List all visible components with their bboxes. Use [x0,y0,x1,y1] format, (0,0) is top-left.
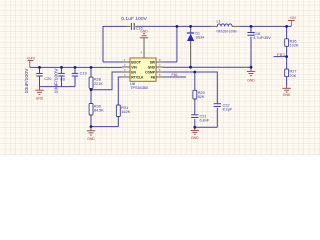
resistor R26 [285,39,299,48]
svg-text:GND: GND [148,65,156,69]
svg-text:VIN: VIN [131,65,137,69]
wire EN pin [91,72,122,90]
power +24V [26,57,35,68]
ground pad9 flipped above IC [140,29,149,38]
resistor R27 [285,69,297,78]
svg-text:C20: C20 [44,77,51,81]
wire VIN rail y=67.4 [30,66,122,68]
wire comp network bottom y=127.3 [195,108,218,128]
svg-text:GND: GND [87,137,95,141]
U8 body [130,58,156,81]
capacitor C22 [214,103,233,111]
svg-text:8.2pF: 8.2pF [223,107,233,111]
svg-text:102K: 102K [290,44,299,48]
resistor R31 [116,105,130,117]
inductor L1 [211,19,240,33]
capacitor C8 [54,68,65,93]
svg-text:0.1uF 100V: 0.1uF 100V [121,16,147,21]
capacitor C18 [247,32,271,40]
capacitor C20 [24,68,51,93]
wire C18 column x=251 [250,26,252,67]
U8 pins 1-9 [122,38,163,77]
svg-text:221K: 221K [94,82,103,86]
svg-text:C19: C19 [80,72,87,76]
svg-text:SW: SW [150,60,156,64]
svg-text:20K: 20K [290,74,297,78]
svg-text:RT/CLK: RT/CLK [131,75,144,79]
wire R29 column [194,72,196,127]
wire BOOT pin y=62 [103,61,122,63]
svg-text:GND: GND [36,96,44,100]
svg-text:FB1: FB1 [277,52,285,57]
svg-text:C16: C16 [136,27,143,31]
ground EN divider bottom [87,127,96,141]
svg-text:TPS54360: TPS54360 [130,86,148,90]
capacitor C16 bootstrap [121,16,147,31]
wire EN divider column x=91 [90,67,92,126]
capacitor C21 [191,114,210,122]
IC U8 TPS54360 [122,38,163,90]
ground C18 [247,67,256,82]
svg-text:SS34: SS34 [196,36,205,40]
capacitor C19 [72,72,87,76]
resistor R29 [193,90,205,99]
svg-text:YW1050-100M: YW1050-100M [216,29,237,33]
svg-text:EN: EN [131,70,136,74]
svg-text:84.5K: 84.5K [94,109,104,113]
sheet background [0,0,320,155]
wire RT/CLK to R31 [118,77,122,105]
wire top BOOT-SW-L1 output bus y=26.4 [103,26,291,62]
wire input cap bank verticals [40,67,76,86]
svg-text:10uF/100V: 10uF/100V [54,68,59,93]
svg-text:+5V: +5V [289,16,296,20]
wire COMP pin to compensation network [163,72,217,103]
power +5V [288,16,297,26]
wire FB pin stub [163,76,186,78]
wire cap bank ground bus y=86.6 [40,86,76,88]
diode D1 SS34 [187,26,204,67]
svg-text:+24V: +24V [26,57,35,61]
svg-text:GND: GND [191,136,199,140]
svg-text:C8: C8 [60,78,65,82]
svg-text:82K: 82K [198,95,205,99]
svg-text:FB: FB [151,75,156,79]
svg-text:COMP: COMP [145,70,156,74]
svg-text:L1: L1 [217,19,221,23]
resistor R30 [89,104,104,116]
resistor R28 [89,77,103,88]
svg-text:BOOT: BOOT [131,60,141,64]
U8 designator and part number [130,82,148,90]
svg-text:6.8nF: 6.8nF [200,119,210,123]
svg-text:GND: GND [247,78,255,82]
ground cap bank [35,87,44,101]
svg-text:162K: 162K [121,110,130,114]
svg-text:GND: GND [283,93,291,97]
wire output divider column x=286.6 [286,26,288,85]
U8 pin names [131,60,156,79]
svg-text:10uF/100V: 10uF/100V [24,68,29,93]
wire GND pin bus y=67.2 [163,66,251,68]
wire bottom joining R30 R31 y=126.6 [91,117,118,127]
ground comp network [191,127,200,140]
U8 pin numbers [124,51,161,78]
wire SW pin to top bus [163,26,177,62]
ground output divider [282,86,291,98]
svg-text:FB1: FB1 [172,73,178,77]
svg-text:4.7uF/35V: 4.7uF/35V [253,36,271,40]
wire FB1 tap y=56.6 [274,56,287,58]
